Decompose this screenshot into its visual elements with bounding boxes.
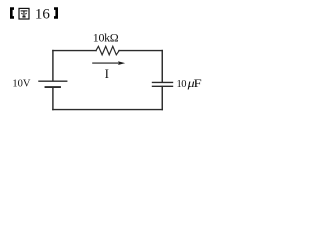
svg-text:10kΩ: 10kΩ xyxy=(93,30,119,44)
svg-text:I: I xyxy=(105,66,109,81)
current arrow shaft xyxy=(92,62,119,64)
wire left rail lower xyxy=(52,87,54,109)
svg-text:F: F xyxy=(194,77,202,90)
capacitor C1 bottom plate xyxy=(153,85,173,87)
caption kanji 図 bottom blob xyxy=(22,16,25,18)
wire right rail lower xyxy=(161,87,163,110)
caption bracket left 【 xyxy=(10,7,14,18)
battery V1 short negative plate xyxy=(46,86,61,88)
capacitor C1 top plate xyxy=(153,81,173,83)
wire bottom rail xyxy=(53,109,162,111)
caption bracket right 】 xyxy=(54,7,58,18)
battery V1 long positive plate xyxy=(39,80,67,82)
wire left rail upper xyxy=(52,51,54,81)
svg-text:10: 10 xyxy=(177,79,187,90)
wire top rail right segment xyxy=(119,50,162,52)
svg-text:16: 16 xyxy=(35,7,51,23)
svg-text:10V: 10V xyxy=(12,78,31,89)
wire right rail upper xyxy=(161,51,163,82)
resistor R 10kΩ zigzag xyxy=(96,46,119,55)
current arrow head xyxy=(118,61,125,65)
caption kanji 図 xyxy=(19,8,29,19)
wire top rail left segment xyxy=(53,50,96,52)
